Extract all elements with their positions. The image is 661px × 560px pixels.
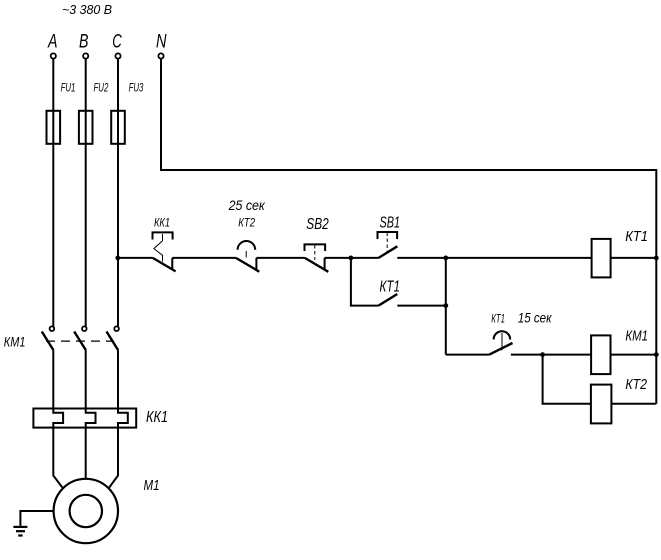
fuse FU3 [111,111,125,144]
svg-text:КМ1: КМ1 [4,334,26,349]
node junction C control tap [115,256,120,261]
contact KM1 pole B [74,326,86,412]
coil KM1 [591,335,610,374]
wire KK1 to KT2 [172,257,236,259]
svg-text:КТ2: КТ2 [238,215,255,229]
thermal relay KK1 heaters [33,409,136,428]
svg-text:КТ2: КТ2 [625,376,647,393]
svg-text:КТ1: КТ1 [380,278,401,295]
svg-text:FU1: FU1 [61,81,76,95]
node junction SB1 right [443,256,448,261]
contact KM1 pole A [42,326,54,412]
contact KT2 timed NC, 25 sec [228,197,266,272]
svg-text:25 сек: 25 сек [228,197,266,213]
pushbutton SB1 NO start [351,215,446,258]
svg-text:B: B [79,32,89,53]
svg-text:N: N [156,32,167,53]
wire KT2 to SB2 [256,257,304,259]
contact KT1 NO self-hold [379,278,446,305]
wire motor lead B [85,428,87,480]
wire to coil KT1 [446,257,592,259]
contact KT1 timed NO, 15 sec [489,310,552,355]
coil KT2 [591,385,612,424]
node junction SB2/KT1 branch [349,256,354,261]
svg-text:SB1: SB1 [380,215,401,232]
wire motor lead C [109,428,118,489]
wire ground lead [20,511,53,526]
wire coil KM1 to N bus [611,354,657,356]
terminal N [158,53,163,58]
wire phase B vertical [85,59,87,327]
contact KM1 pole C [107,326,119,412]
wire neutral N [161,59,656,404]
fuse FU1 [47,111,61,144]
coil KT1 [592,239,611,278]
pushbutton SB2 NC stop [305,216,330,272]
svg-text:C: C [112,32,122,53]
wire coil KT1 to N bus [611,257,657,259]
svg-text:FU3: FU3 [129,81,144,95]
terminal A [51,53,56,58]
contact KK1 thermal NC [153,217,176,271]
svg-text:~3 380 В: ~3 380 В [62,2,112,17]
motor M1 [54,479,118,543]
wire control from C to KK1 [118,257,153,259]
node junction N bus mid [654,352,659,357]
wire to KT1 timed contact [446,354,490,356]
svg-text:КТ1: КТ1 [491,314,505,326]
svg-text:M1: M1 [144,477,160,494]
node junction N bus top [654,256,659,261]
terminal C [115,53,120,58]
wire coil KT2 to N bus [611,403,657,405]
svg-text:КТ1: КТ1 [625,228,648,245]
wire SB2 to node [325,257,351,259]
svg-text:FU2: FU2 [94,81,109,95]
svg-text:SB2: SB2 [306,216,329,233]
svg-text:КМ1: КМ1 [625,327,648,344]
svg-text:A: A [47,32,57,53]
svg-text:КК1: КК1 [154,217,170,229]
terminal B [83,53,88,58]
wire motor lead A [53,428,63,489]
node junction self-hold right [443,303,448,308]
fuse FU2 [79,111,93,144]
svg-text:15 сек: 15 сек [518,310,553,326]
wire phase C vertical [117,59,119,327]
node junction KM1/KT2 branch [540,352,545,357]
wire to coil KM1 [543,354,592,356]
svg-text:КК1: КК1 [146,409,168,426]
wire vertical branch to timed row [445,258,447,355]
wire phase A vertical [52,59,54,327]
wire KM1 mechanical link dashed [46,340,114,342]
wire branch down from SB2 node [351,258,379,306]
wire branch to coil KT2 [543,355,592,404]
ground [13,527,27,536]
